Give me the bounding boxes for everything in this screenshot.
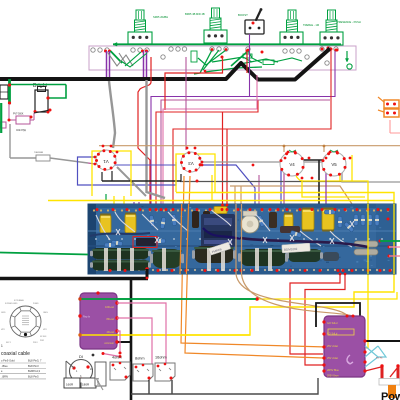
svg-text:V1: V1: [103, 159, 109, 164]
svg-text:C0247(9p: C0247(9p: [16, 130, 27, 132]
svg-text:8 PIN BASE: 8 PIN BASE: [14, 299, 25, 302]
svg-text:PLATE: PLATE: [33, 302, 39, 305]
svg-text:common: common: [104, 342, 114, 345]
svg-text:KEY 1: KEY 1: [6, 342, 11, 344]
svg-text:V5: V5: [331, 162, 337, 167]
svg-text:BL8 Pin5: BL8 Pin5: [28, 374, 39, 378]
svg-text:SCREEN GRID: SCREEN GRID: [5, 303, 18, 305]
svg-text:PRESENCE - PUSH: PRESENCE - PUSH: [337, 20, 361, 24]
svg-text:8R-out: 8R-out: [106, 318, 114, 321]
svg-text:GRID: GRID: [1, 312, 6, 314]
svg-text:70B180R: 70B180R: [34, 152, 44, 154]
svg-text:25V violet: 25V violet: [327, 345, 338, 348]
svg-text:4R-out: 4R-out: [106, 331, 114, 334]
svg-text:coaxial cable: coaxial cable: [1, 351, 30, 357]
svg-text:PIN 8: PIN 8: [33, 342, 38, 344]
svg-text:CATH: CATH: [43, 311, 48, 314]
svg-text:16ohm: 16ohm: [155, 356, 167, 360]
svg-text:CO SdLd: CO SdLd: [327, 333, 338, 336]
svg-text:V4: V4: [289, 162, 295, 167]
svg-text:BL8 Pin3: BL8 Pin3: [28, 364, 39, 368]
svg-text:SR05 202BH: SR05 202BH: [153, 15, 168, 19]
svg-text:25V violet: 25V violet: [327, 357, 338, 360]
svg-text:TREBLE - 1M: TREBLE - 1M: [303, 23, 319, 27]
svg-text:Rep In: Rep In: [83, 316, 91, 319]
svg-text:NC BL8: NC BL8: [40, 336, 46, 338]
svg-text:BL8Pin4,3: BL8Pin4,3: [28, 369, 41, 373]
svg-text:..BRN: ..BRN: [1, 374, 8, 378]
svg-text:2R5V Blue: 2R5V Blue: [327, 369, 340, 372]
svg-text:BR05 4B: BR05 4B: [185, 12, 196, 16]
svg-text:MID 4B: MID 4B: [196, 12, 205, 16]
svg-text:1: 1: [1, 344, 3, 348]
svg-text:160R: 160R: [66, 383, 74, 387]
svg-text:Power: Power: [381, 391, 400, 400]
svg-text:2R5V Brwn: 2R5V Brwn: [327, 375, 339, 378]
svg-text:V3: V3: [188, 161, 194, 166]
svg-text:16R-out: 16R-out: [105, 306, 114, 309]
svg-text:4ohm: 4ohm: [112, 356, 122, 360]
svg-text:o Pin9 Gold: o Pin9 Gold: [1, 359, 15, 363]
svg-text:..Blue: ..Blue: [1, 364, 8, 368]
svg-text:BL8 Pin5, 7: BL8 Pin5, 7: [28, 359, 42, 363]
svg-text:BOOST: BOOST: [238, 13, 248, 17]
svg-text:DI: DI: [79, 354, 83, 359]
svg-text:PVT-500K: PVT-500K: [13, 114, 24, 116]
svg-text:GO SdLd: GO SdLd: [327, 322, 338, 325]
svg-text:180R: 180R: [82, 383, 90, 387]
svg-text:For Hb: For Hb: [376, 357, 383, 360]
svg-text:8ohm: 8ohm: [135, 357, 145, 361]
svg-text:PIN2: PIN2: [40, 340, 44, 342]
